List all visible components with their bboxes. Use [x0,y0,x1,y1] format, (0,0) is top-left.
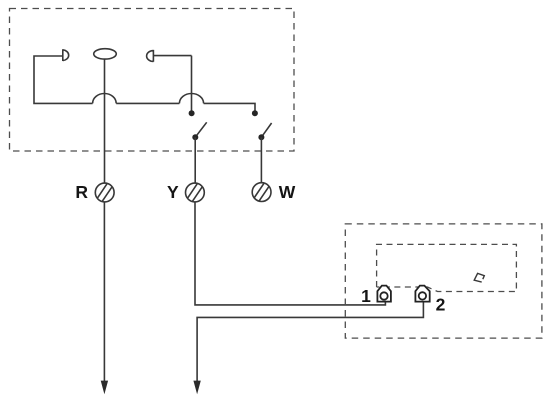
wire to W branch [204,103,255,110]
wire Y branch vertical [191,56,193,111]
switch Y fixed contact dot [189,110,195,116]
contact D1 (flat left, bulge right) [63,49,69,61]
equipment outer dashed box [345,224,542,338]
thermostat dashed outline box [10,9,295,152]
decorative small rotated rectangle [474,273,484,282]
wire crossover hump 2 [179,94,203,104]
contact D2 (flat right, bulge left) [147,50,154,62]
wire terminal 2 to bottom arrow [197,302,423,382]
svg-text:R: R [75,182,88,202]
arrowhead R wire [101,381,108,395]
wire between humps [116,102,179,104]
svg-text:Y: Y [167,182,179,202]
svg-text:2: 2 [436,294,446,314]
switch W moving contact dot [258,134,264,140]
terminal Y circle with hatch [186,183,205,202]
switch W blade [261,123,271,137]
terminal R circle with hatch [95,183,114,202]
terminal 1 (pentagon with circle) [377,286,391,302]
terminal W circle with hatch [252,183,271,202]
switch W fixed contact dot [252,110,258,116]
arrowhead terminal 2 wire [193,381,200,395]
wire R vertical from ellipse to terminal R [104,59,106,183]
wire crossover hump 1 [93,94,117,104]
wire left loop [34,56,93,103]
bimetal ellipse [94,49,117,59]
terminal 2 (pentagon with circle) [415,286,429,302]
switch Y moving contact dot [192,134,198,140]
wire from W switch to terminal W [260,137,262,183]
wire R to bottom arrow [103,202,105,382]
equipment inner dashed box [377,244,517,291]
wire from Y switch to terminal Y [194,137,196,183]
svg-text:1: 1 [361,286,371,306]
wire Y terminal to terminal 1 [195,202,385,305]
wire from D2 to Y branch [153,55,191,57]
svg-text:W: W [279,182,296,202]
switch Y blade [195,122,206,137]
